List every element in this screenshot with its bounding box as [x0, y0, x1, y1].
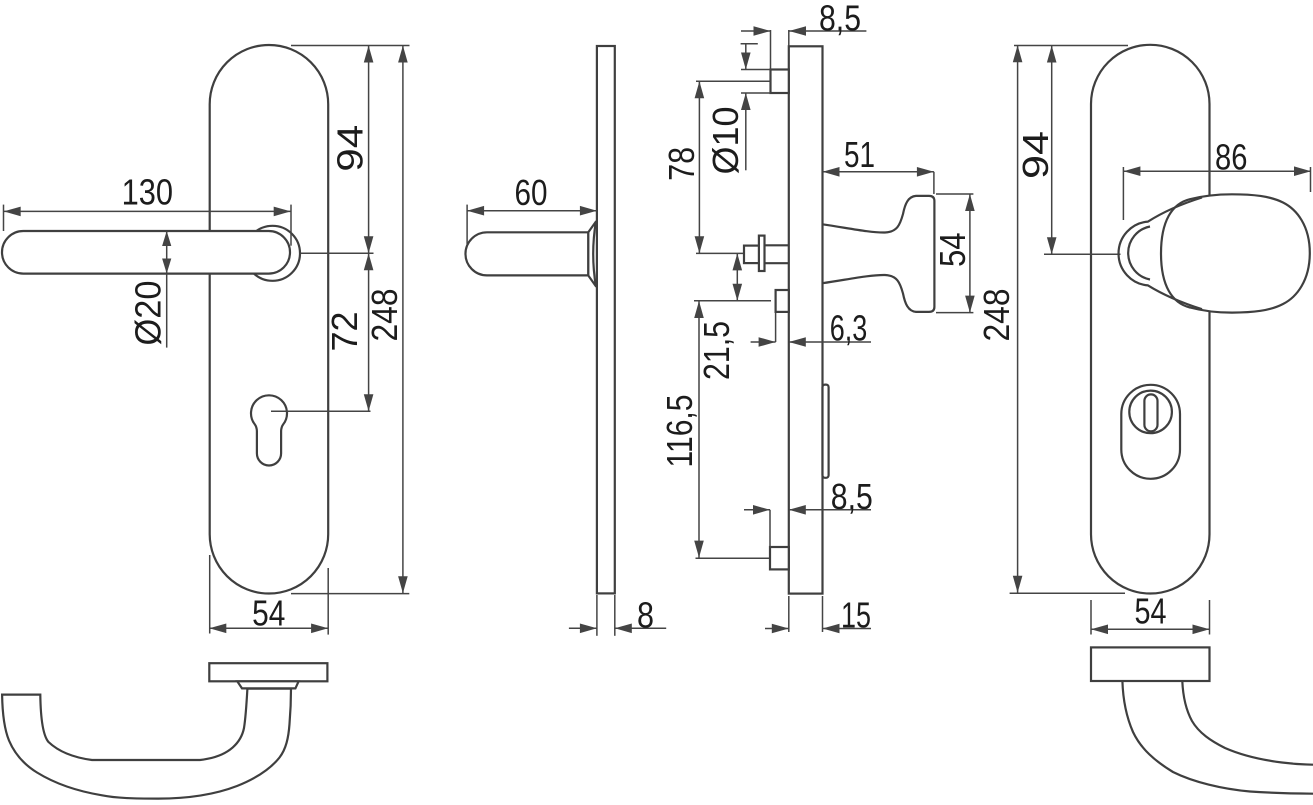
dim 94 ticks v1: [291, 45, 410, 47]
view1 lever grip bar (130 long, D20): [2, 231, 290, 274]
svg-text:8: 8: [637, 595, 654, 636]
dim D10 bottom arrow: [745, 93, 747, 170]
security rosette oval: [1121, 385, 1180, 479]
dim 8,5 top extension: [770, 30, 772, 70]
dim knob center tick v4: [1044, 253, 1121, 255]
svg-text:8,5: 8,5: [819, 0, 861, 39]
handle rose collar: [237, 681, 298, 688]
dim 54 line v4: [1091, 628, 1210, 630]
svg-text:60: 60: [515, 172, 548, 213]
svg-text:54: 54: [932, 232, 973, 267]
dim 116,5 line: [698, 301, 700, 558]
lever handle curve inner (bottom right): [1182, 681, 1313, 765]
spindle nut: [744, 246, 759, 264]
view4 backplate (54x248 stadium): [1091, 45, 1210, 594]
view1 euro profile cylinder keyhole: [251, 395, 287, 465]
dim 54 extension lines v4: [1090, 600, 1092, 635]
knob collar inner arc: [1128, 227, 1150, 280]
dim 248 bottom tick v4: [1010, 592, 1125, 594]
dim 86 line: [1123, 170, 1311, 172]
svg-text:72: 72: [324, 312, 365, 352]
dim 116,5 bottom tick: [696, 557, 772, 559]
dim 15 line: [765, 628, 789, 630]
dim 116,5 tick mid: [694, 300, 771, 302]
dim 248 bottom tick v1: [291, 593, 409, 595]
dim 6,3 line: [751, 341, 776, 343]
svg-text:8,5: 8,5: [831, 476, 873, 517]
dim 54 line v1: [209, 627, 328, 629]
dim 130 extension lines: [3, 205, 5, 231]
spindle shaft: [765, 244, 789, 246]
dim 60 extension line: [466, 205, 468, 245]
dim 51 extension: [933, 172, 935, 194]
dim 8,5 top line: [741, 30, 771, 32]
dim 248 line v4: [1017, 45, 1019, 593]
view2 lever grip flare trapezoid: [588, 222, 596, 287]
svg-text:78: 78: [661, 147, 702, 181]
dim 8 line: [569, 627, 597, 629]
rosette cylinder circle: [1129, 391, 1172, 434]
svg-text:Ø10: Ø10: [705, 107, 746, 175]
dim 54 extension lines v1: [209, 555, 211, 634]
dim 54 knob line: [969, 194, 971, 313]
cylinder cover strip (side): [823, 385, 829, 478]
dim 78 ticks: [696, 80, 771, 82]
dim 86 extension lines: [1122, 167, 1124, 220]
dim D10 top arrow: [741, 43, 758, 45]
lever handle curve outer (bottom right): [1122, 681, 1313, 794]
svg-text:248: 248: [364, 289, 405, 342]
view1 backplate (54x248 stadium): [210, 45, 329, 594]
svg-text:54: 54: [1135, 590, 1167, 631]
knob collar outer arc + flare: [1119, 198, 1202, 310]
view2 plate side (8 thick): [597, 46, 615, 593]
dim 15 extension lines: [788, 596, 790, 632]
dim 8 extension lines: [596, 595, 598, 636]
dim 94 line v4: [1051, 46, 1053, 255]
svg-text:86: 86: [1215, 137, 1247, 178]
lower screw boss (8,5): [770, 547, 789, 569]
dim D20 line: [166, 231, 168, 348]
spindle washer: [759, 236, 765, 271]
dim 60 line: [467, 210, 597, 212]
dim 72 line: [368, 253, 370, 411]
dim 8,5 lower line: [744, 509, 770, 511]
svg-text:94: 94: [1015, 131, 1056, 179]
dim 130 line: [4, 210, 291, 212]
dim 6,3 extension: [775, 312, 777, 342]
svg-text:94: 94: [329, 125, 370, 172]
view3 top fixing screw head: [771, 70, 789, 94]
dim 51 line: [823, 171, 934, 173]
dim 248 line v1: [402, 46, 404, 594]
dim 94/248 top tick v4: [1014, 45, 1128, 47]
svg-text:15: 15: [841, 595, 871, 636]
view2 lever grip side (60): [465, 232, 588, 275]
rosette key slot: [1144, 394, 1157, 431]
knob side profile: [823, 196, 935, 312]
handle rose block (bottom right): [1091, 647, 1210, 681]
dim 94 line v1: [368, 46, 370, 254]
handle rose plate (bottom left): [209, 663, 327, 681]
svg-text:130: 130: [122, 172, 173, 213]
dim 21,5 line: [736, 253, 738, 300]
knob front oval: [1161, 194, 1310, 312]
svg-text:51: 51: [844, 134, 875, 175]
svg-text:116,5: 116,5: [659, 395, 700, 468]
svg-text:21,5: 21,5: [696, 321, 737, 380]
svg-text:248: 248: [976, 289, 1017, 342]
svg-text:Ø20: Ø20: [128, 281, 169, 346]
svg-text:54: 54: [252, 592, 285, 633]
view1 lever neck rose circle: [245, 226, 300, 281]
svg-text:6,3: 6,3: [830, 308, 868, 349]
view3 plate section (15 thick): [789, 46, 823, 593]
upper screw boss (6,3): [776, 290, 789, 312]
dim 72 tick (keyhole center): [271, 410, 371, 412]
lever handle U-shape (bottom left): [2, 689, 291, 799]
dim 54 knob ticks: [936, 193, 973, 195]
dim 8,5 lower extension: [769, 510, 771, 547]
dim 78 line: [698, 81, 700, 253]
